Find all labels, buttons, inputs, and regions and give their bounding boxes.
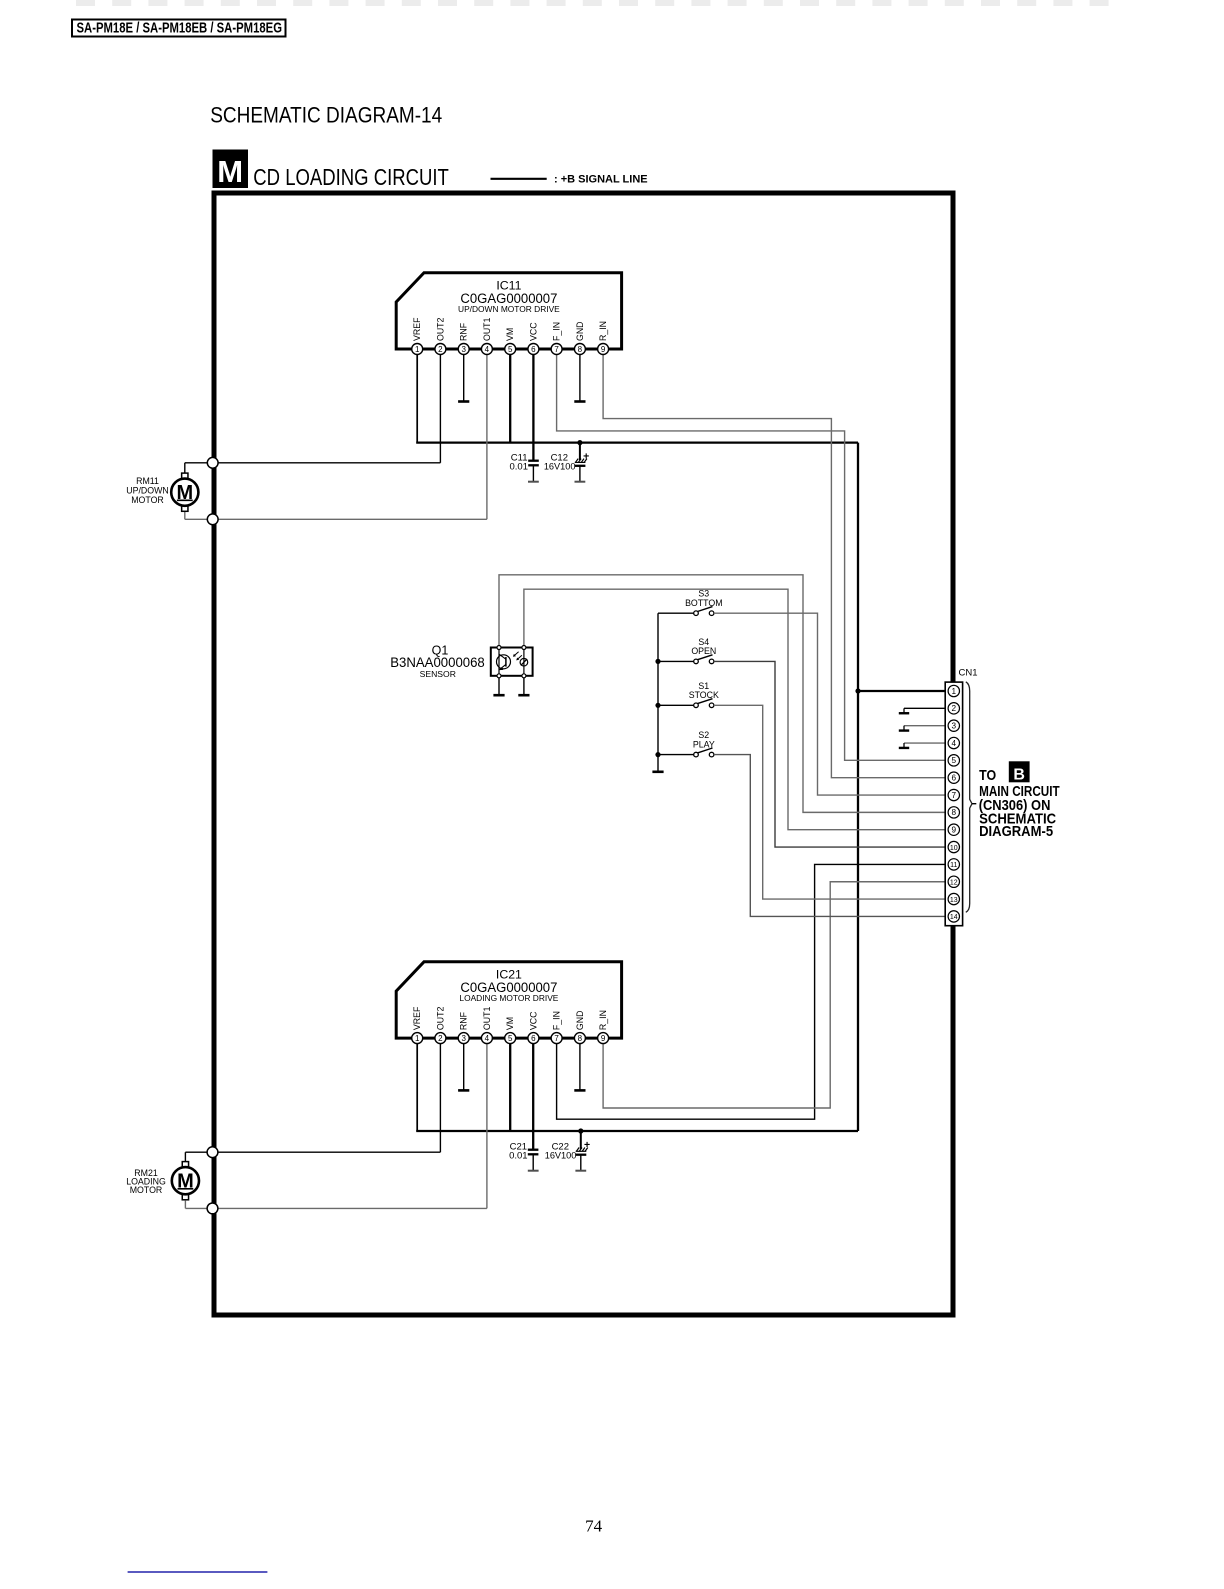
- svg-text:OUT2: OUT2: [435, 317, 445, 341]
- svg-text:GND: GND: [575, 321, 585, 341]
- svg-text:VREF: VREF: [412, 1006, 422, 1030]
- svg-text:VM: VM: [505, 1017, 515, 1030]
- svg-text:12: 12: [950, 880, 958, 887]
- svg-text:CD LOADING CIRCUIT: CD LOADING CIRCUIT: [253, 164, 448, 190]
- svg-text:MOTOR: MOTOR: [130, 1185, 163, 1195]
- svg-text:+: +: [583, 450, 589, 462]
- svg-text:7: 7: [554, 345, 559, 354]
- svg-text:16V100: 16V100: [544, 462, 576, 472]
- svg-text:R_IN: R_IN: [598, 321, 608, 341]
- svg-text:7: 7: [952, 791, 957, 800]
- svg-text:6: 6: [531, 1034, 536, 1043]
- svg-text:UP/DOWN MOTOR DRIVE: UP/DOWN MOTOR DRIVE: [458, 304, 560, 314]
- svg-text:13: 13: [950, 897, 958, 904]
- svg-text:CN1: CN1: [959, 668, 978, 679]
- svg-text:+: +: [584, 1139, 590, 1151]
- svg-text:UP/DOWN: UP/DOWN: [126, 486, 169, 496]
- svg-text:8: 8: [578, 1034, 583, 1043]
- svg-text:6: 6: [952, 774, 957, 783]
- svg-text:10: 10: [950, 845, 958, 852]
- svg-text:R_IN: R_IN: [598, 1010, 608, 1030]
- svg-text:LOADING MOTOR DRIVE: LOADING MOTOR DRIVE: [459, 993, 558, 1003]
- svg-text:STOCK: STOCK: [689, 690, 719, 700]
- svg-text:1: 1: [415, 1034, 420, 1043]
- svg-text:3: 3: [461, 1034, 466, 1043]
- svg-text:16V100: 16V100: [545, 1151, 577, 1161]
- svg-text:B: B: [1013, 766, 1025, 783]
- svg-text:SENSOR: SENSOR: [420, 669, 456, 679]
- svg-text:OUT1: OUT1: [482, 1007, 492, 1031]
- svg-text:2: 2: [952, 704, 957, 713]
- svg-text:0.01: 0.01: [510, 462, 529, 473]
- svg-text:VCC: VCC: [528, 1011, 538, 1030]
- svg-text:11: 11: [950, 862, 957, 869]
- svg-text:F_IN: F_IN: [552, 322, 562, 341]
- svg-text:VM: VM: [505, 328, 515, 341]
- svg-text:: +B SIGNAL LINE: : +B SIGNAL LINE: [554, 174, 648, 186]
- svg-text:3: 3: [952, 721, 957, 730]
- svg-text:4: 4: [952, 739, 957, 748]
- svg-text:SCHEMATIC DIAGRAM-14: SCHEMATIC DIAGRAM-14: [210, 102, 442, 127]
- svg-text:TO: TO: [979, 767, 996, 784]
- svg-text:7: 7: [554, 1034, 559, 1043]
- svg-text:8: 8: [578, 345, 583, 354]
- svg-text:9: 9: [601, 345, 606, 354]
- svg-text:8: 8: [952, 808, 957, 817]
- svg-text:2: 2: [438, 1034, 443, 1043]
- svg-text:DIAGRAM-5: DIAGRAM-5: [979, 823, 1053, 840]
- svg-text:4: 4: [485, 1034, 490, 1043]
- svg-text:M: M: [217, 154, 243, 189]
- svg-text:SA-PM18E / SA-PM18EB / SA-PM18: SA-PM18E / SA-PM18EB / SA-PM18EG: [77, 20, 283, 36]
- svg-text:5: 5: [508, 1034, 513, 1043]
- svg-text:B3NAA0000068: B3NAA0000068: [390, 655, 485, 670]
- svg-text:74: 74: [585, 1517, 603, 1536]
- svg-text:OUT1: OUT1: [482, 317, 492, 341]
- svg-text:1: 1: [952, 687, 957, 696]
- svg-text:2: 2: [438, 345, 443, 354]
- svg-text:PLAY: PLAY: [693, 739, 715, 749]
- svg-text:VREF: VREF: [412, 317, 422, 341]
- svg-text:4: 4: [485, 345, 490, 354]
- svg-text:VCC: VCC: [528, 322, 538, 341]
- svg-text:1: 1: [415, 345, 420, 354]
- svg-text:GND: GND: [575, 1011, 585, 1031]
- svg-text:0.01: 0.01: [509, 1151, 528, 1162]
- svg-text:MOTOR: MOTOR: [131, 495, 164, 505]
- svg-text:14: 14: [950, 914, 958, 921]
- svg-text:5: 5: [508, 345, 513, 354]
- svg-text:3: 3: [461, 345, 466, 354]
- svg-text:OPEN: OPEN: [691, 646, 716, 656]
- svg-text:RNF: RNF: [459, 322, 469, 341]
- svg-text:RM11: RM11: [136, 476, 159, 486]
- svg-text:BOTTOM: BOTTOM: [685, 598, 722, 608]
- svg-text:5: 5: [952, 756, 957, 765]
- svg-text:RNF: RNF: [459, 1011, 469, 1030]
- svg-text:6: 6: [531, 345, 536, 354]
- svg-text:9: 9: [952, 826, 957, 835]
- svg-text:9: 9: [601, 1034, 606, 1043]
- svg-text:OUT2: OUT2: [435, 1007, 445, 1031]
- svg-text:F_IN: F_IN: [552, 1011, 562, 1030]
